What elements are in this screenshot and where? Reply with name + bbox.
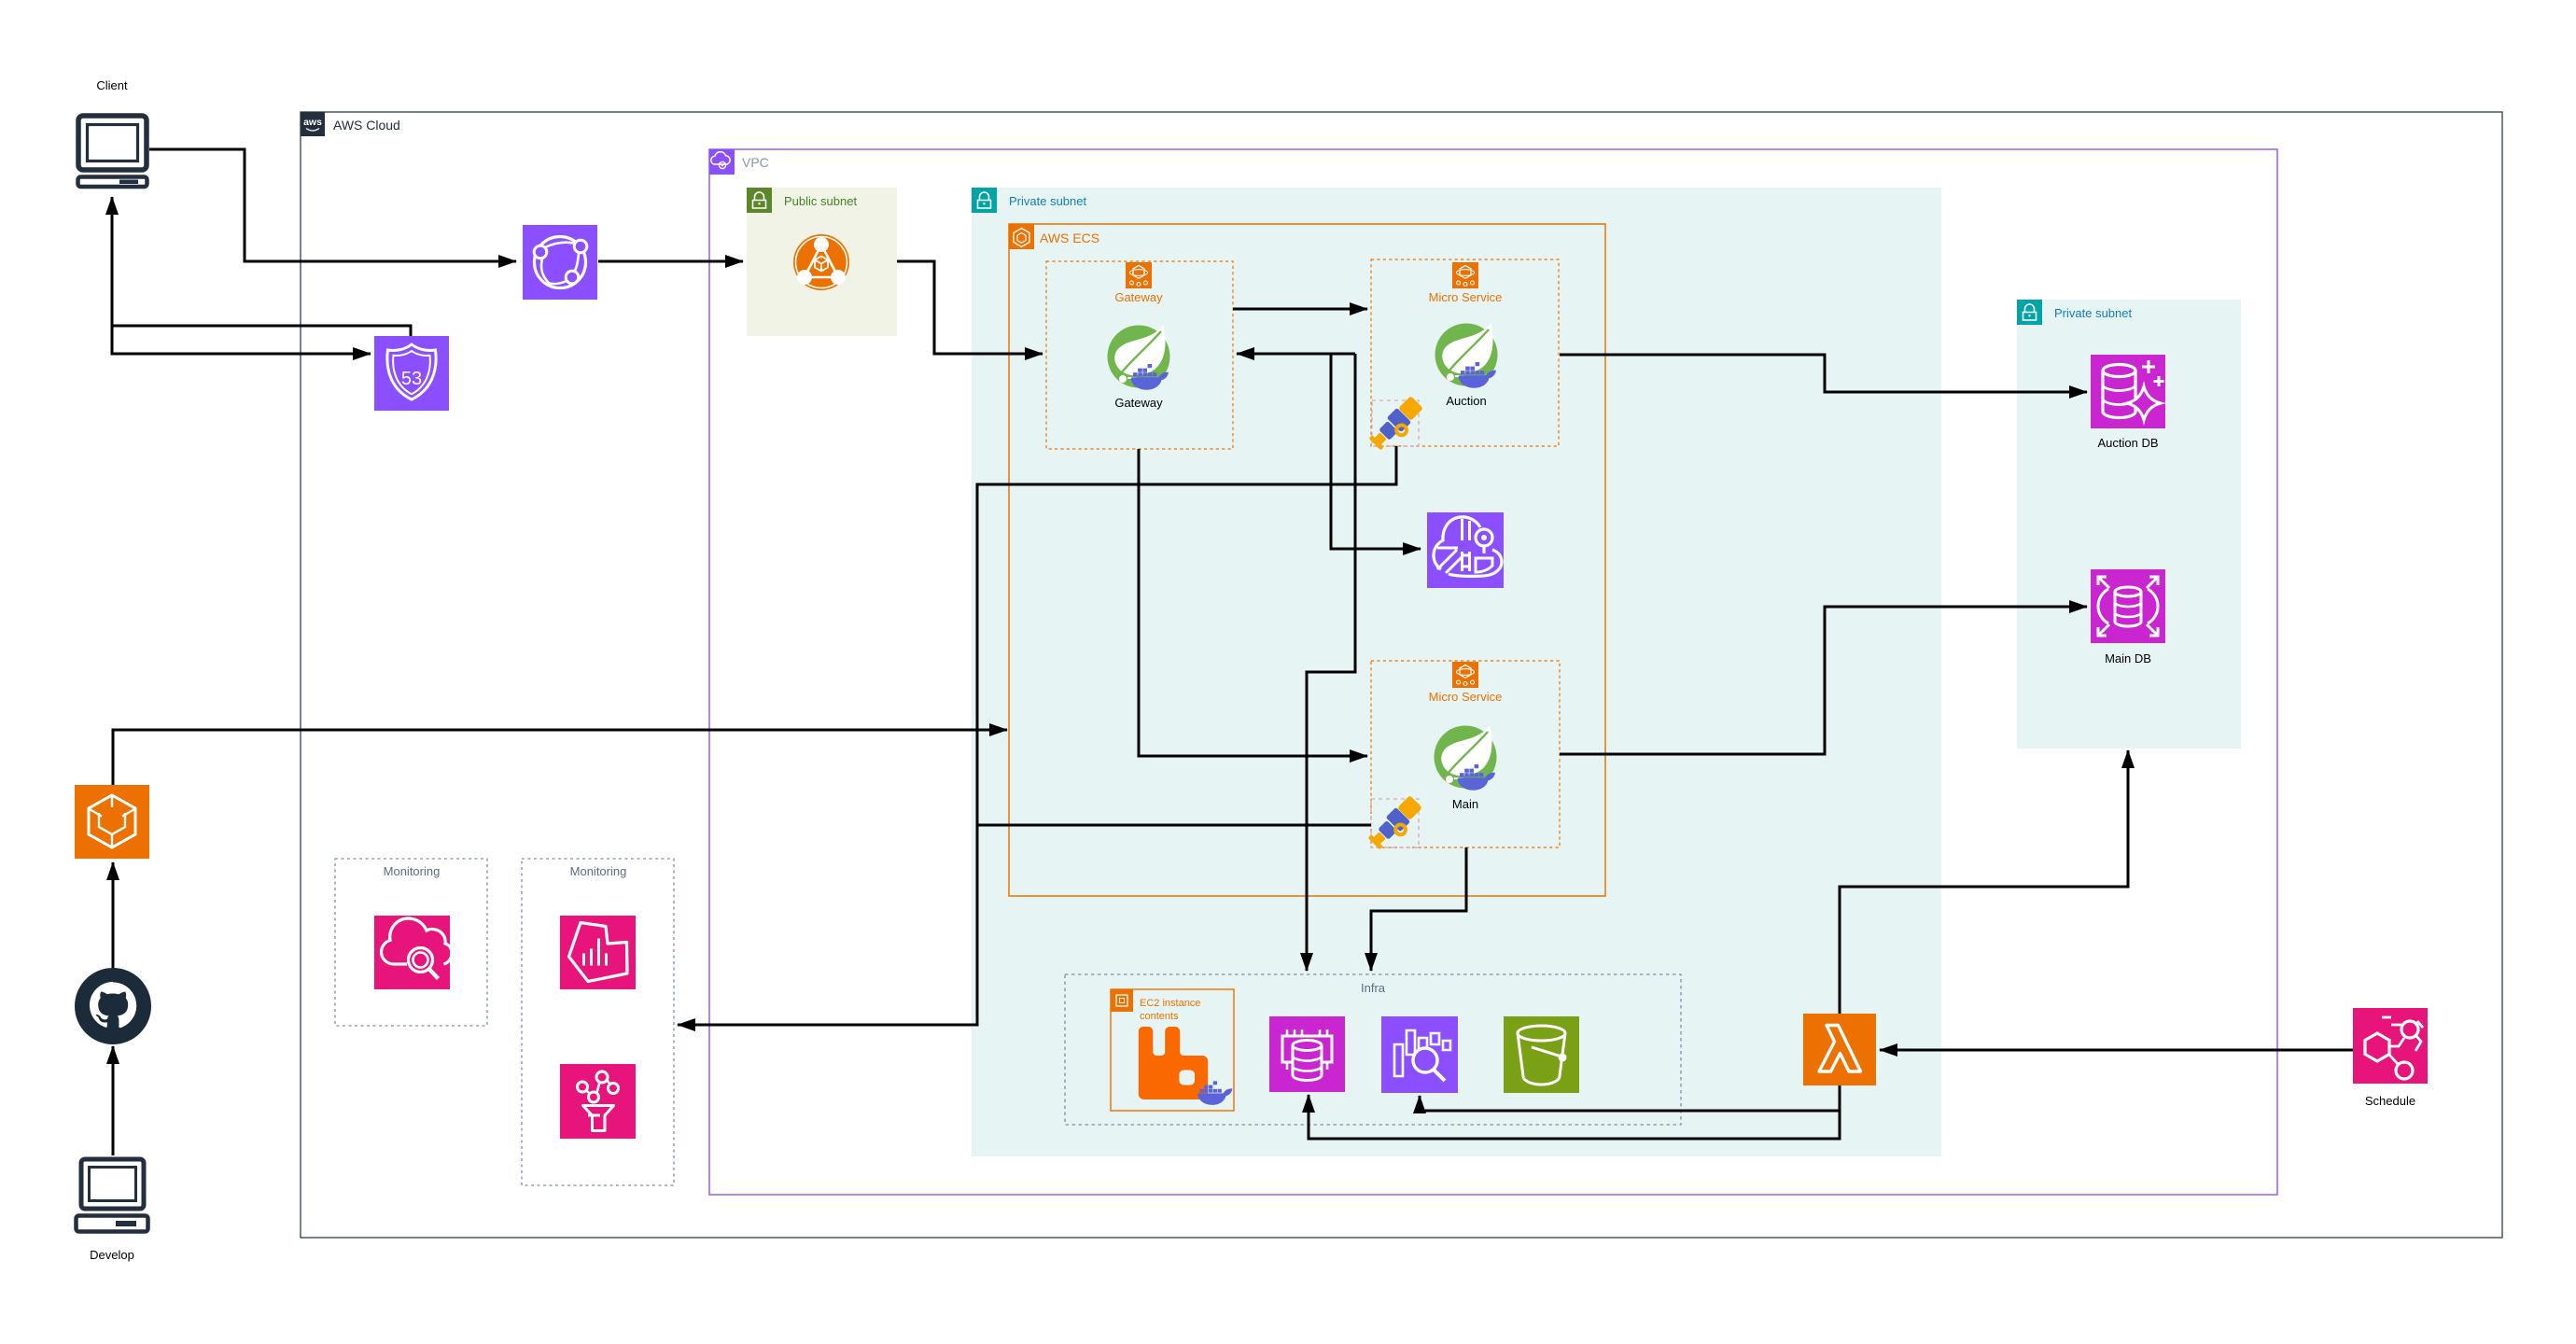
- cloudwatch logs icon (purple): [1381, 1016, 1458, 1093]
- svg-text:Gateway: Gateway: [1114, 290, 1163, 304]
- location service icon: [1427, 512, 1504, 588]
- wire main to main db: [1560, 607, 2087, 754]
- AWS ECS box: [1009, 224, 1605, 896]
- svg-text:Public subnet: Public subnet: [784, 194, 857, 208]
- private subnet box (right, databases): [2017, 300, 2241, 749]
- wire auction to location service: [1331, 354, 1421, 549]
- svg-text:53: 53: [401, 369, 422, 389]
- route53 icon: [374, 336, 449, 411]
- wire gateway down to infra: [1307, 354, 1355, 971]
- Infra box (dashed): [1065, 974, 1681, 1125]
- prometheus icon (pink): [560, 1064, 636, 1139]
- spring main icon: [1435, 725, 1497, 791]
- auction db icon (aurora): [2091, 355, 2165, 428]
- wire codebuild deploy to ecs: [113, 730, 1007, 785]
- wire develop to github: [112, 1046, 115, 1155]
- VPC box: [709, 149, 2277, 1195]
- svg-text:Auction: Auction: [1446, 394, 1486, 408]
- wire infra up to gateway return: [1237, 353, 1355, 356]
- wire alb to gateway service: [897, 261, 1043, 354]
- schedule icon (eventbridge scheduler): [2353, 1008, 2428, 1084]
- alb icon in public subnet: [793, 234, 849, 290]
- wire schedule to lambda: [1880, 1049, 2353, 1052]
- opentelemetry box main (dashed): [1371, 799, 1419, 847]
- ECS service box Micro Service Main (dashed): [1371, 661, 1560, 847]
- svg-text:Micro Service: Micro Service: [1429, 690, 1503, 704]
- wire lambda to right private subnet: [1840, 750, 2128, 1014]
- otel main icon: [1366, 794, 1426, 854]
- develop laptop icon: [77, 1159, 148, 1232]
- wire auction otel down and to monitoring: [678, 446, 1396, 1025]
- svg-text:Monitoring: Monitoring: [570, 864, 627, 878]
- svg-text:Monitoring: Monitoring: [384, 864, 441, 878]
- rabbitmq + docker icon: [1139, 1027, 1233, 1105]
- svg-text:Client: Client: [96, 78, 128, 92]
- wire route53 up to client: [112, 197, 411, 336]
- svg-text:aws: aws: [303, 117, 322, 128]
- wire main otel to monitoring junction: [977, 824, 1371, 827]
- github icon: [75, 968, 151, 1044]
- ECS service box Micro Service Auction (dashed): [1371, 259, 1559, 446]
- codebuild icon: [75, 785, 149, 859]
- grafana icon (pink): [560, 916, 636, 989]
- wire lambda to elasticache infra: [1309, 1085, 1840, 1139]
- spring auction icon: [1435, 323, 1498, 388]
- wire client to cloudfront: [149, 149, 516, 261]
- wire main service down to infra: [1371, 847, 1466, 971]
- s3 bucket icon: [1504, 1016, 1579, 1093]
- svg-text:Schedule: Schedule: [2365, 1094, 2415, 1108]
- wire gateway to auction service: [1233, 308, 1367, 311]
- svg-text:Auction DB: Auction DB: [2097, 436, 2158, 450]
- wire auction to auction db: [1560, 355, 2087, 392]
- svg-text:Develop: Develop: [90, 1248, 134, 1262]
- otel auction icon: [1367, 395, 1427, 455]
- svg-text:EC2 instance: EC2 instance: [1140, 998, 1200, 1009]
- svg-text:Infra: Infra: [1361, 981, 1386, 995]
- svg-text:Main: Main: [1452, 797, 1478, 811]
- wire client to route53: [112, 326, 371, 354]
- EC2 instance contents box: [1111, 989, 1234, 1111]
- wire lambda to cloudwatch infra: [1420, 1085, 1840, 1111]
- Monitoring box 2 (dashed): [522, 859, 674, 1185]
- wire github to codebuild: [112, 862, 115, 971]
- public subnet box: [747, 188, 897, 336]
- svg-text:contents: contents: [1140, 1011, 1179, 1022]
- svg-text:Main DB: Main DB: [2105, 651, 2151, 665]
- cloudfront icon: [523, 225, 597, 300]
- svg-text:AWS Cloud: AWS Cloud: [333, 118, 400, 133]
- lambda icon: [1803, 1014, 1876, 1085]
- client computer icon: [78, 116, 147, 187]
- svg-text:Gateway: Gateway: [1114, 396, 1163, 410]
- private subnet box (main): [972, 188, 1941, 1156]
- svg-text:Private subnet: Private subnet: [1009, 194, 1086, 208]
- ECS service box Gateway (dashed): [1046, 261, 1233, 449]
- AWS Cloud box: [301, 112, 2502, 1238]
- Monitoring box 1 (dashed): [335, 859, 487, 1026]
- wire cloudfront to alb public subnet: [598, 260, 743, 263]
- svg-text:VPC: VPC: [742, 155, 769, 170]
- cloudwatch icon (pink monitoring): [374, 916, 452, 989]
- svg-text:Private subnet: Private subnet: [2054, 306, 2132, 320]
- opentelemetry box auction (dashed): [1372, 400, 1419, 446]
- wire gateway to main service: [1139, 449, 1367, 756]
- svg-text:AWS ECS: AWS ECS: [1040, 231, 1099, 245]
- svg-text:Micro Service: Micro Service: [1429, 290, 1503, 304]
- spring gateway icon: [1108, 325, 1170, 390]
- main db icon: [2091, 569, 2165, 643]
- elasticache icon: [1269, 1016, 1345, 1092]
